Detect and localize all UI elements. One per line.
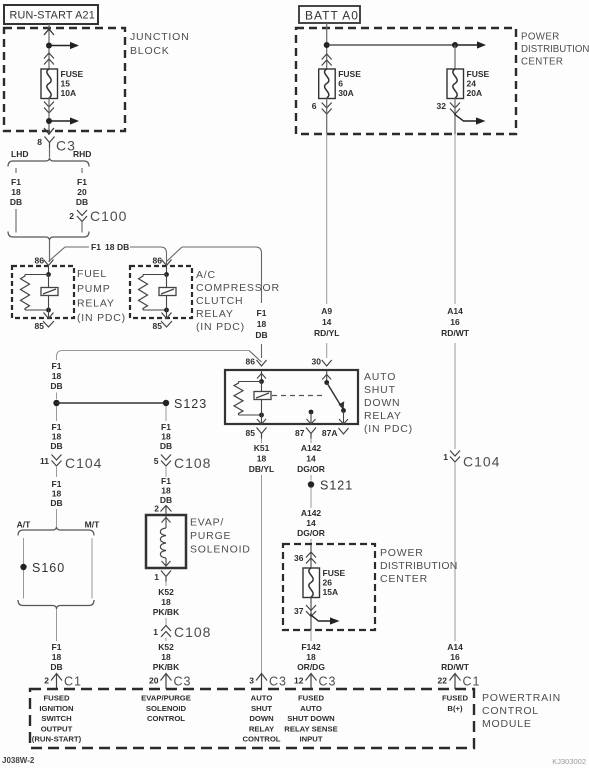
svg-text:K52: K52	[158, 587, 174, 597]
svg-text:DB: DB	[50, 441, 62, 451]
svg-text:M/T: M/T	[85, 520, 100, 530]
svg-text:SOLENOID: SOLENOID	[190, 544, 251, 556]
svg-text:RHD: RHD	[73, 149, 91, 159]
svg-text:C108: C108	[174, 455, 211, 471]
merge brace A/T M/T	[18, 600, 94, 609]
splice S121	[308, 481, 314, 487]
svg-text:C104: C104	[65, 455, 102, 471]
svg-text:F1: F1	[257, 308, 267, 318]
label BATT A0	[299, 6, 360, 23]
solenoid coil	[165, 515, 167, 528]
svg-text:18: 18	[105, 242, 115, 252]
svg-text:CLUTCH: CLUTCH	[196, 295, 243, 307]
svg-text:DB: DB	[50, 498, 62, 508]
svg-text:OUTPUT: OUTPUT	[41, 724, 73, 733]
branch arrow from pin 37	[311, 614, 331, 622]
svg-text:F1: F1	[52, 361, 62, 371]
svg-text:F1: F1	[52, 422, 62, 432]
svg-text:A/C: A/C	[196, 269, 216, 281]
svg-text:18: 18	[257, 454, 267, 464]
svg-text:RELAY SENSE: RELAY SENSE	[284, 724, 337, 733]
svg-text:3: 3	[249, 676, 254, 686]
svg-text:87A: 87A	[322, 428, 338, 438]
svg-text:18: 18	[52, 371, 62, 381]
svg-text:DG/OR: DG/OR	[297, 528, 325, 538]
wire splice feed from pin 86	[249, 351, 262, 363]
svg-text:MODULE: MODULE	[482, 718, 532, 730]
svg-text:COMPRESSOR: COMPRESSOR	[196, 282, 280, 294]
a/c compressor clutch relay	[130, 266, 192, 318]
svg-text:FUSED: FUSED	[298, 694, 325, 703]
svg-text:POWERTRAIN: POWERTRAIN	[482, 692, 561, 704]
wire to LHD/RHD split	[49, 148, 51, 158]
powertrain control module	[30, 689, 474, 748]
svg-text:IGNITION: IGNITION	[39, 704, 74, 713]
pin 22 connector C1	[454, 673, 456, 689]
svg-text:18: 18	[161, 432, 171, 442]
svg-text:11: 11	[40, 456, 49, 466]
svg-text:C3: C3	[269, 675, 287, 689]
svg-text:POWER: POWER	[380, 547, 424, 559]
svg-text:RELAY: RELAY	[249, 724, 274, 733]
svg-text:F142: F142	[301, 642, 321, 652]
svg-text:CONTROL: CONTROL	[147, 714, 185, 723]
svg-text:RD/WT: RD/WT	[441, 328, 470, 338]
svg-text:86: 86	[35, 256, 45, 266]
svg-text:RUN-START A21: RUN-START A21	[10, 10, 95, 22]
power distribution center (fuse 26)	[283, 544, 375, 630]
svg-text:S121: S121	[320, 479, 353, 493]
svg-text:C3: C3	[319, 675, 337, 689]
wire K51 18 DB/YL	[261, 439, 263, 444]
fuel pump relay	[12, 266, 74, 318]
svg-text:30A: 30A	[338, 88, 354, 98]
svg-text:36: 36	[294, 553, 304, 563]
svg-text:DB: DB	[160, 495, 172, 505]
svg-text:A/T: A/T	[17, 520, 32, 530]
svg-text:18: 18	[161, 652, 171, 662]
node junction block top	[46, 43, 52, 49]
svg-text:DISTRIBUTION: DISTRIBUTION	[380, 560, 458, 572]
svg-text:22: 22	[438, 676, 448, 686]
svg-text:F1: F1	[161, 476, 171, 486]
svg-text:K51: K51	[254, 443, 270, 453]
svg-text:S123: S123	[174, 397, 207, 411]
svg-text:18: 18	[52, 432, 62, 442]
svg-text:C104: C104	[463, 454, 500, 470]
svg-text:C108: C108	[174, 624, 211, 640]
svg-text:DB: DB	[76, 197, 88, 207]
svg-text:EVAP/: EVAP/	[190, 517, 224, 529]
wire F1 20 DB (RHD)	[81, 168, 83, 173]
svg-text:CONTROL: CONTROL	[242, 735, 280, 744]
svg-text:F1: F1	[91, 242, 101, 252]
svg-text:DISTRIBUTION: DISTRIBUTION	[521, 44, 589, 55]
evap/purge solenoid	[146, 515, 186, 568]
ASD coil	[261, 370, 263, 382]
svg-text:DB: DB	[160, 441, 172, 451]
svg-text:FUEL: FUEL	[77, 268, 107, 280]
svg-text:LHD: LHD	[11, 149, 28, 159]
wire branch to ASD relay	[167, 247, 183, 262]
svg-text:AUTO: AUTO	[364, 371, 396, 383]
svg-text:2: 2	[154, 504, 159, 514]
svg-text:30: 30	[312, 357, 322, 367]
svg-text:(RUN-START): (RUN-START)	[32, 735, 82, 744]
svg-text:K52: K52	[158, 642, 174, 652]
svg-text:SHUT DOWN: SHUT DOWN	[287, 714, 335, 723]
svg-text:OR/DG: OR/DG	[297, 662, 325, 672]
svg-text:B(+): B(+)	[447, 704, 463, 713]
svg-text:6: 6	[338, 79, 343, 89]
wire fuse 24 drop	[454, 45, 456, 69]
wire to PCM pin 2	[56, 609, 58, 641]
node fuse 24 tap	[452, 42, 458, 48]
pin 36	[310, 544, 312, 568]
svg-text:INPUT: INPUT	[299, 735, 322, 744]
svg-text:J038W-2: J038W-2	[2, 756, 35, 765]
fuse 6 terminal top	[322, 54, 332, 60]
wire A9 14 RD/YL	[326, 134, 328, 304]
svg-text:2: 2	[44, 676, 49, 686]
wire A/T branch	[23, 538, 25, 599]
svg-text:F1: F1	[52, 642, 62, 652]
svg-text:FUSE: FUSE	[323, 568, 346, 578]
node junction block bottom	[48, 97, 50, 135]
svg-text:F1: F1	[52, 479, 62, 489]
svg-text:16: 16	[450, 652, 460, 662]
ASD coil-switch dashed link	[272, 395, 325, 397]
svg-text:86: 86	[153, 256, 163, 266]
svg-text:32: 32	[437, 101, 447, 111]
svg-text:14: 14	[306, 454, 316, 464]
svg-text:18: 18	[52, 489, 62, 499]
pin 2 connector C1	[51, 674, 62, 681]
svg-text:20: 20	[149, 676, 159, 686]
svg-text:DOWN: DOWN	[364, 397, 400, 409]
connector C3	[45, 137, 55, 143]
branch arrow from pin 32	[455, 113, 477, 121]
pin 12 connector C3	[306, 674, 317, 681]
fuse 15 terminal bottom	[44, 102, 54, 108]
svg-text:KJ303002: KJ303002	[552, 757, 586, 766]
svg-text:DB: DB	[117, 242, 129, 252]
merge brace	[8, 232, 89, 241]
svg-text:1: 1	[154, 572, 159, 582]
svg-text:26: 26	[323, 578, 333, 588]
pin 20 connector C3	[161, 674, 172, 681]
svg-text:FUSE: FUSE	[338, 69, 361, 79]
svg-text:DG/OR: DG/OR	[297, 464, 325, 474]
svg-text:1: 1	[443, 452, 448, 462]
svg-text:DB: DB	[255, 330, 267, 340]
svg-text:SHUT: SHUT	[251, 704, 272, 713]
svg-text:CONTROL: CONTROL	[482, 705, 539, 717]
arrow out of junction block	[44, 128, 54, 134]
auto shut down relay	[225, 370, 358, 424]
svg-text:(IN PDC): (IN PDC)	[77, 312, 126, 324]
svg-text:DB: DB	[50, 662, 62, 672]
svg-text:14: 14	[322, 317, 332, 327]
svg-text:A14: A14	[447, 642, 463, 652]
svg-text:FUSED: FUSED	[442, 694, 469, 703]
wire K52 18 PK/BK upper	[165, 582, 167, 587]
wire F1 18 DB branch to relays	[49, 247, 66, 262]
svg-text:37: 37	[294, 606, 304, 616]
svg-text:2: 2	[69, 211, 74, 221]
svg-text:SWITCH: SWITCH	[41, 714, 72, 723]
svg-text:8: 8	[37, 137, 42, 147]
svg-text:A9: A9	[321, 306, 332, 316]
svg-text:A14: A14	[447, 306, 463, 316]
junction block	[4, 28, 125, 131]
bus wire to fuse 24	[327, 44, 455, 46]
svg-text:20A: 20A	[467, 88, 483, 98]
label RUN-START A21	[4, 5, 98, 24]
splice S123	[163, 400, 169, 406]
wire to fuel pump relay pin 86	[49, 241, 51, 263]
svg-text:EVAP/PURGE: EVAP/PURGE	[141, 694, 191, 703]
svg-text:1: 1	[153, 627, 158, 637]
wire A142 14 DG/OR lower	[310, 488, 312, 508]
svg-text:87: 87	[295, 428, 305, 438]
ASD switch	[326, 370, 328, 383]
svg-text:CENTER: CENTER	[380, 573, 428, 585]
svg-text:85: 85	[246, 428, 256, 438]
svg-text:BATT A0: BATT A0	[305, 9, 359, 23]
wire batt a0 feed	[326, 23, 328, 69]
splice S160	[20, 564, 26, 570]
svg-text:FUSE: FUSE	[61, 69, 84, 79]
svg-text:85: 85	[153, 321, 163, 331]
svg-text:DB/YL: DB/YL	[249, 464, 275, 474]
svg-text:BLOCK: BLOCK	[130, 45, 170, 57]
svg-text:18: 18	[161, 597, 171, 607]
svg-text:10A: 10A	[61, 88, 77, 98]
svg-text:POWER: POWER	[521, 32, 560, 43]
svg-text:C100: C100	[90, 208, 127, 224]
svg-text:A142: A142	[301, 443, 322, 453]
ASD pin 87 stub	[309, 410, 314, 415]
wire run-start to fuse 15	[48, 24, 50, 69]
svg-text:RELAY: RELAY	[364, 410, 402, 422]
svg-text:18: 18	[11, 187, 21, 197]
node batt feed	[324, 42, 330, 48]
svg-text:15: 15	[61, 79, 71, 89]
svg-text:15A: 15A	[323, 587, 339, 597]
svg-text:AUTO: AUTO	[300, 704, 322, 713]
svg-text:16: 16	[450, 317, 460, 327]
svg-text:DB: DB	[10, 197, 22, 207]
svg-text:SOLENOID: SOLENOID	[146, 704, 187, 713]
svg-text:RELAY: RELAY	[196, 308, 234, 320]
node S-line left	[53, 400, 59, 406]
fuse F15 10A	[41, 69, 58, 99]
fuse 15 terminal top	[44, 53, 54, 59]
svg-text:PK/BK: PK/BK	[153, 662, 180, 672]
wire A14 16 RD/WT upper	[454, 134, 456, 304]
svg-text:F1: F1	[161, 422, 171, 432]
arrow up into run-start	[44, 29, 54, 35]
svg-text:PUMP: PUMP	[77, 283, 111, 295]
wire F1 18 DB below left node	[56, 406, 58, 421]
svg-text:PURGE: PURGE	[190, 530, 231, 542]
svg-text:18: 18	[306, 652, 316, 662]
svg-text:SHUT: SHUT	[364, 384, 396, 396]
svg-text:DB: DB	[50, 381, 62, 391]
svg-text:86: 86	[246, 357, 256, 367]
pin 3 connector C3	[256, 674, 267, 681]
svg-text:FUSE: FUSE	[467, 69, 490, 79]
svg-text:JUNCTION: JUNCTION	[130, 31, 189, 43]
wire F1 18 DB (LHD)	[15, 168, 17, 173]
wire below S123	[165, 406, 167, 421]
svg-text:AUTO: AUTO	[251, 694, 273, 703]
svg-text:RD/YL: RD/YL	[314, 328, 340, 338]
svg-text:RELAY: RELAY	[77, 298, 115, 310]
svg-text:18: 18	[257, 319, 267, 329]
svg-text:FUSED: FUSED	[43, 694, 70, 703]
splice bus wire	[57, 402, 167, 404]
svg-text:C3: C3	[174, 675, 192, 689]
svg-text:14: 14	[306, 518, 316, 528]
svg-text:S160: S160	[32, 561, 65, 575]
wire M/T branch	[91, 538, 93, 599]
svg-text:F1: F1	[11, 177, 21, 187]
svg-text:24: 24	[467, 79, 477, 89]
svg-text:DOWN: DOWN	[249, 714, 274, 723]
svg-text:5: 5	[154, 456, 159, 466]
svg-text:RD/WT: RD/WT	[441, 662, 470, 672]
wire A142 14 DG/OR upper	[310, 439, 312, 444]
wire A14 16 RD/WT lower	[454, 462, 456, 641]
fuse F24 20A	[447, 69, 464, 99]
svg-text:18: 18	[52, 652, 62, 662]
power distribution center	[296, 28, 516, 134]
svg-text:20: 20	[77, 187, 87, 197]
svg-text:C1: C1	[463, 675, 481, 689]
svg-text:(IN PDC): (IN PDC)	[196, 321, 245, 333]
svg-text:PK/BK: PK/BK	[153, 607, 180, 617]
svg-text:C1: C1	[64, 675, 82, 689]
svg-text:85: 85	[35, 321, 45, 331]
fuse F6 30A	[319, 69, 336, 99]
svg-text:A142: A142	[301, 508, 322, 518]
wire F142 18 OR/DG	[310, 630, 312, 641]
fuse F26 15A	[303, 568, 320, 598]
svg-text:CENTER: CENTER	[521, 57, 563, 68]
svg-text:F1: F1	[77, 177, 87, 187]
svg-text:(IN PDC): (IN PDC)	[364, 423, 413, 435]
svg-text:18: 18	[161, 486, 171, 496]
svg-text:12: 12	[294, 676, 304, 686]
svg-text:6: 6	[312, 101, 317, 111]
